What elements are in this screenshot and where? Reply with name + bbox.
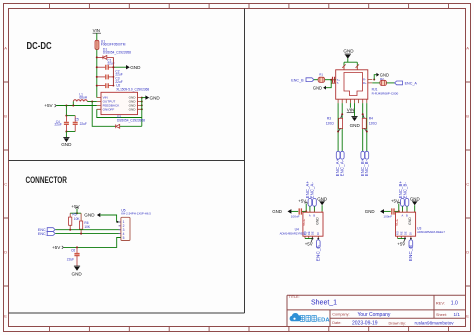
wire gnd to U3 [414, 205, 416, 212]
svg-text:R1: R1 [319, 72, 323, 76]
label C6 [71, 249, 75, 253]
port ENC_B+ below RJ1 [360, 151, 365, 176]
capacitor C3 [97, 83, 114, 88]
diode D2 [116, 124, 120, 128]
wire bead to cap [325, 79, 332, 81]
svg-text:Drawn By:: Drawn By: [389, 321, 407, 325]
capacitor C6 [74, 247, 79, 266]
net flag +5V left [44, 103, 56, 108]
wire down to ground [65, 132, 67, 138]
junction dots on +5V rail [65, 105, 74, 107]
port ENC_B left [38, 232, 55, 236]
capacitor C5 [73, 116, 78, 132]
svg-text:A: A [4, 46, 7, 51]
capacitor 100nF at U3 [392, 208, 394, 214]
ground flag right of RJ1 [376, 72, 389, 77]
U2 pin names left [103, 96, 121, 112]
label D2 value [117, 115, 145, 122]
wire cap to ground flag [291, 210, 298, 212]
ground flag top right of U3 [410, 196, 420, 205]
junction dot R5 bottom [69, 229, 71, 231]
inductor L1 [73, 100, 87, 102]
svg-text:B: B [406, 214, 408, 218]
wire ports to U3 [403, 206, 408, 212]
label U3 value [417, 227, 445, 234]
U3 top pins [399, 210, 415, 212]
svg-text:KH-2.54PH-1X5P-H6.5: KH-2.54PH-1X5P-H6.5 [121, 212, 151, 216]
wire to GND flag right of U2 [142, 97, 146, 99]
wire GND down to shield pins [342, 58, 359, 70]
svg-text:TITLE:: TITLE: [289, 295, 300, 299]
junction node OUTPUT [91, 101, 93, 103]
label C2 value [115, 69, 122, 76]
label C6 value [67, 258, 74, 262]
wire ON/OFF down and across [97, 109, 142, 117]
wire +5V to pin5 [64, 238, 121, 248]
ground flag top right of U4 [317, 196, 327, 205]
wire gnd to U4 [321, 205, 323, 212]
port ENC_B right section [291, 78, 314, 83]
connector RJ1 body [336, 70, 368, 99]
svg-text:ENC_B: ENC_B [291, 78, 304, 82]
resistor R3 termination [338, 114, 343, 131]
svg-text:E: E [466, 314, 469, 319]
svg-text:120Ω: 120Ω [369, 122, 378, 126]
ground flag right of C1 [126, 65, 141, 70]
diode D1 [97, 56, 114, 60]
wire +5V down to resistor bar [76, 209, 78, 213]
wire caps top link [66, 115, 75, 117]
RJ1 bottom pins [338, 99, 367, 103]
svg-text:GND: GND [317, 196, 327, 201]
port ENC_A+ above U4 [305, 181, 312, 207]
wire ENC_B to bead [314, 79, 318, 81]
label C1 value [107, 58, 114, 65]
junction dot caps top [65, 115, 67, 117]
title block label TITLE [289, 295, 300, 299]
ground symbol below C4 C5 [61, 138, 72, 148]
U3 pin name GND [408, 217, 412, 225]
wire caps branch down [65, 106, 67, 116]
U4 pin names bottom [303, 231, 320, 235]
svg-text:VCC: VCC [395, 218, 399, 226]
junction dot right coupling [373, 79, 375, 81]
net flag +5V below U3 [397, 239, 405, 247]
svg-text:ENC_B: ENC_B [408, 245, 413, 261]
svg-text:DI: DI [316, 232, 320, 235]
wire ENC_B to pin4 [55, 233, 120, 235]
svg-text:R5: R5 [72, 213, 76, 217]
wire R- pin up to GND [374, 75, 376, 80]
title block value Sheet_1 [311, 300, 337, 307]
svg-text:DE: DE [311, 231, 315, 235]
wire VIN to fuse [96, 33, 98, 40]
svg-text:DS5054_C2923958: DS5054_C2923958 [103, 50, 131, 54]
label R5 value [72, 213, 80, 221]
wire resistor top bar [70, 212, 81, 214]
wire RE DE tie [398, 238, 405, 240]
svg-text:R+: R+ [363, 81, 367, 85]
ferrite bead R1 [318, 77, 325, 82]
fuse U1 [95, 40, 99, 49]
svg-text:GND: GND [350, 123, 361, 128]
svg-text:T-: T- [337, 81, 339, 85]
svg-text:ENC_B-: ENC_B- [364, 159, 369, 176]
op-amp U2 regulator body [101, 92, 138, 114]
U5 pin numbers [123, 220, 125, 240]
svg-text:C5: C5 [75, 118, 79, 122]
junction dot DE node [404, 238, 406, 240]
connector U5 body [121, 217, 130, 240]
svg-text:22uF: 22uF [67, 258, 74, 262]
junction dots on GND bus [112, 66, 114, 86]
svg-text:+5V: +5V [305, 242, 313, 247]
svg-text:ADM1485ARZ-REEL7: ADM1485ARZ-REEL7 [417, 230, 445, 234]
title block value 2023-09-19 [352, 321, 378, 327]
capacitor C4 [64, 116, 69, 132]
svg-text:Sheet_1: Sheet_1 [311, 300, 337, 307]
U4 pin name VCC [302, 218, 306, 226]
junction dot DI node [317, 238, 319, 240]
wire bead to port ENC_A [387, 82, 395, 84]
ground flag pin1 [84, 212, 100, 217]
svg-text:E: E [4, 314, 7, 319]
wire ENC_A to pin3 [55, 229, 120, 231]
frame zone ticks bottom [50, 327, 449, 332]
svg-text:XL1509-5.0_C2902368: XL1509-5.0_C2902368 [116, 87, 149, 91]
svg-text:GND: GND [343, 49, 354, 54]
svg-text:ENC_A-: ENC_A- [310, 182, 315, 199]
label L1 value [79, 93, 87, 100]
label U4 value [280, 228, 308, 236]
RJ1 right pins [368, 80, 373, 83]
junction dot VCC node [398, 210, 400, 212]
svg-text:10K: 10K [84, 225, 91, 229]
ground flag left of U3 [365, 209, 384, 214]
frame zone letters left [4, 46, 7, 319]
net GND bus vertical (caps right side) [112, 57, 114, 85]
svg-text:GND: GND [130, 65, 141, 70]
svg-text:22uF: 22uF [55, 123, 62, 127]
svg-text:+5V: +5V [397, 242, 405, 247]
title block label Sheet [436, 313, 447, 317]
svg-text:ENC_A: ENC_A [405, 82, 418, 86]
junction dot C6 tap [76, 246, 78, 248]
svg-text:C: C [466, 182, 469, 187]
svg-text:Company:: Company: [332, 313, 349, 317]
svg-text:+5V: +5V [52, 245, 61, 250]
svg-text:VIN: VIN [347, 108, 355, 113]
section box CONNECTOR bottom edge [9, 312, 245, 314]
svg-text:GND: GND [316, 217, 320, 225]
svg-text:DC-DC: DC-DC [27, 40, 53, 51]
ground flag right of U2 [145, 95, 160, 100]
junction dot +5V node [76, 212, 78, 214]
svg-text:GND: GND [272, 209, 282, 214]
label R4 value [369, 117, 378, 126]
title block outline [287, 295, 466, 326]
title block value 1/1 [454, 312, 461, 317]
svg-text:2023-09-19: 2023-09-19 [352, 321, 378, 327]
net flag +5V bottom [52, 245, 63, 250]
port ENC_B below U3 [408, 240, 413, 261]
ground symbol below C6 [72, 266, 83, 276]
svg-text:B: B [4, 114, 7, 119]
svg-text:GND: GND [129, 107, 137, 111]
title block value Your Company [358, 312, 391, 318]
wire pin1 to GND [100, 215, 120, 222]
label 100nF [383, 214, 392, 218]
label U1 value [101, 39, 126, 46]
svg-text:ENC_A-: ENC_A- [339, 159, 344, 176]
U3 pin names bottom [396, 231, 413, 235]
wire GND branch left [326, 80, 331, 88]
svg-text:ADM1485ARZ-REEL7: ADM1485ARZ-REEL7 [280, 231, 308, 235]
section box DC-DC [9, 9, 245, 314]
U2 pins right [138, 98, 142, 110]
svg-text:R-RJ45R08P-C000: R-RJ45R08P-C000 [372, 91, 399, 95]
wire differential pair B [363, 103, 367, 151]
U2 pins left [97, 98, 101, 110]
U4 pin names A B [309, 214, 316, 218]
svg-text:Sheet:: Sheet: [436, 313, 447, 317]
svg-text:EDA: EDA [317, 317, 330, 323]
svg-text:1.0: 1.0 [451, 301, 458, 307]
wire D2 to GND bus [120, 125, 142, 127]
net flag VIN [93, 28, 101, 33]
svg-text:100nF: 100nF [291, 214, 300, 218]
ground flag left of U4 [272, 209, 291, 214]
junction dots U2 right pins [141, 97, 143, 111]
EasyEDA logo cloud icon [290, 313, 302, 321]
wire C1 to GND flag [113, 66, 126, 68]
net flag VIN bottom of RJ1 [347, 103, 355, 113]
svg-text:F0603FF0500TM: F0603FF0500TM [101, 43, 126, 47]
U2 pin names right GND [129, 96, 137, 112]
net flag +5V below U4 [305, 239, 313, 247]
svg-text:CONNECTOR: CONNECTOR [26, 175, 68, 186]
net flag +5V at U3 [391, 198, 400, 203]
svg-text:GND: GND [72, 271, 83, 276]
wire VCC to bypass cap [301, 210, 306, 212]
title block value ruslan98mambetov [415, 321, 455, 326]
svg-text:REV:: REV: [436, 300, 445, 305]
svg-text:GND: GND [150, 95, 161, 100]
ferrite bead R2 [380, 80, 387, 85]
wire cap to ground flag [384, 210, 391, 212]
svg-text:R4: R4 [369, 117, 373, 121]
port ENC_A- above U4 [310, 182, 317, 207]
title block value 1.0 [451, 301, 458, 307]
svg-text:GND: GND [410, 196, 420, 201]
ground flag top [343, 49, 354, 59]
junction dot pin1 [116, 221, 118, 223]
label C3 value [115, 76, 122, 84]
svg-text:100nF: 100nF [383, 214, 392, 218]
section title CONNECTOR [26, 175, 68, 186]
junction dot caps bottom [65, 131, 67, 133]
junction dots R4 [362, 113, 368, 132]
svg-text:10K: 10K [74, 217, 81, 221]
svg-text:ENC_A: ENC_A [315, 244, 320, 261]
port ENC_B+ above U3 [398, 181, 405, 207]
svg-text:A: A [402, 214, 404, 218]
label 100nF [291, 214, 300, 218]
U3 pin names A B [402, 214, 409, 218]
net flag +5V top [71, 204, 80, 209]
resistor R4 termination [362, 114, 367, 131]
wire ports to U4 [310, 206, 315, 212]
port ENC_A below U4 [315, 240, 320, 261]
svg-text:RE: RE [399, 231, 403, 235]
svg-text:5: 5 [123, 236, 125, 240]
title block label Company [332, 313, 349, 317]
series capacitor left [333, 77, 335, 83]
svg-text:B: B [313, 214, 315, 218]
label R6 value [84, 221, 91, 229]
label C5 value [75, 118, 87, 126]
junction dot VCC node [305, 210, 307, 212]
junction dot R6 bottom [80, 233, 82, 235]
svg-text:DS5054_C2923958: DS5054_C2923958 [117, 118, 145, 122]
U4 bottom pins [305, 236, 318, 240]
svg-text:D: D [466, 250, 469, 255]
resistor R6 [80, 213, 83, 233]
label U5 value [121, 209, 151, 216]
svg-text:T+: T+ [337, 78, 341, 82]
svg-text:VIN: VIN [93, 28, 100, 33]
capacitor 100nF at U4 [299, 208, 301, 214]
svg-text:RO: RO [396, 231, 400, 235]
title block label Date [332, 321, 341, 325]
wire +5V to VCC pin [305, 204, 307, 213]
wire L1 left lead down to +5V rail [72, 102, 74, 106]
svg-text:Your Company: Your Company [358, 312, 391, 318]
svg-text:GND: GND [365, 209, 375, 214]
junction dot left coupling [330, 79, 332, 81]
junction dot DI node [410, 238, 412, 240]
title block label REV [436, 300, 445, 305]
svg-text:C: C [4, 182, 7, 187]
junction dots R3 [337, 113, 343, 132]
wire +5V to VCC pin [398, 204, 400, 213]
svg-text:GND: GND [84, 212, 95, 217]
svg-text:1/1: 1/1 [454, 312, 461, 317]
svg-text:R3: R3 [327, 117, 331, 121]
wire L1 to OUTPUT pin [87, 101, 97, 103]
wire U2 GND pins bus [141, 98, 143, 127]
port ENC_A right section [395, 81, 418, 86]
svg-text:120Ω: 120Ω [326, 122, 335, 126]
svg-text:C6: C6 [71, 249, 75, 253]
EasyEDA logo EDA text [317, 317, 330, 323]
label R1 [319, 72, 323, 76]
ground flag left of RJ1 [313, 85, 326, 90]
label R2 [380, 77, 384, 81]
port ENC_B- above U3 [402, 182, 409, 207]
RJ1 left pins [331, 80, 335, 83]
svg-text:B: B [466, 114, 469, 119]
svg-text:R-: R- [363, 78, 366, 82]
port ENC_B- below RJ1 [364, 151, 369, 176]
capacitor C2 [97, 75, 114, 80]
frame zone ticks left [4, 82, 9, 286]
wire OUTPUT node down to D2 [92, 102, 115, 127]
net flag +5V at U4 [298, 198, 307, 203]
junction dots on VIN rail [96, 56, 98, 86]
transceiver U3 body [396, 212, 416, 236]
svg-text:ON/OFF: ON/OFF [103, 107, 115, 111]
svg-text:GND: GND [313, 85, 322, 90]
wire VCC to bypass cap [394, 210, 399, 212]
wire differential pair A [338, 103, 342, 151]
frame zone ticks top [50, 4, 449, 9]
svg-text:+5V: +5V [44, 103, 53, 108]
section title DC-DC [27, 40, 53, 51]
label C4 value [55, 120, 62, 127]
label U2 value [116, 84, 149, 92]
wire +5V rail to FEEDBACK [56, 105, 96, 107]
frame zone letters right [466, 46, 469, 319]
ground flag below RJ1 [350, 103, 361, 128]
svg-text:68uH: 68uH [79, 96, 87, 100]
wire RE DE tie [305, 238, 312, 240]
U4 top pins [306, 210, 322, 212]
U5 pins [119, 222, 121, 238]
wire R+ to bead [372, 82, 380, 84]
capacitor C1 [97, 65, 114, 70]
svg-text:GND: GND [408, 217, 412, 225]
svg-text:A: A [466, 46, 469, 51]
svg-text:22uF: 22uF [80, 122, 87, 126]
port ENC_A+ below RJ1 [335, 151, 340, 176]
svg-text:ruslan98mambetov: ruslan98mambetov [415, 321, 455, 326]
wire VIN rail vertical [96, 50, 98, 98]
svg-text:Date:: Date: [332, 321, 341, 325]
U3 pin name VCC [395, 218, 399, 226]
svg-text:DI: DI [409, 232, 413, 235]
port ENC_A- below RJ1 [339, 151, 344, 176]
U3 bottom pins [398, 236, 411, 240]
RJ1 pin names [337, 78, 367, 86]
wire into T+ pin [334, 79, 337, 81]
EasyEDA logo CJK text [300, 315, 316, 321]
label R3 value [326, 117, 335, 126]
resistor R5 [69, 213, 72, 230]
U4 pin name GND [316, 217, 320, 225]
transceiver U4 body [303, 212, 323, 236]
title block label Drawn By [389, 321, 407, 325]
frame zone ticks right [466, 82, 471, 286]
wire caps bottom link [66, 131, 75, 133]
svg-text:VCC: VCC [302, 218, 306, 226]
label D1 value [103, 47, 131, 54]
junction dot DE node [311, 238, 313, 240]
svg-text:A: A [309, 214, 311, 218]
svg-text:D: D [4, 250, 7, 255]
svg-text:DE: DE [403, 231, 407, 235]
svg-text:ENC_B-: ENC_B- [402, 182, 407, 199]
svg-text:GND: GND [61, 142, 72, 147]
label RJ1 value [372, 87, 399, 95]
port ENC_A left [38, 228, 55, 232]
